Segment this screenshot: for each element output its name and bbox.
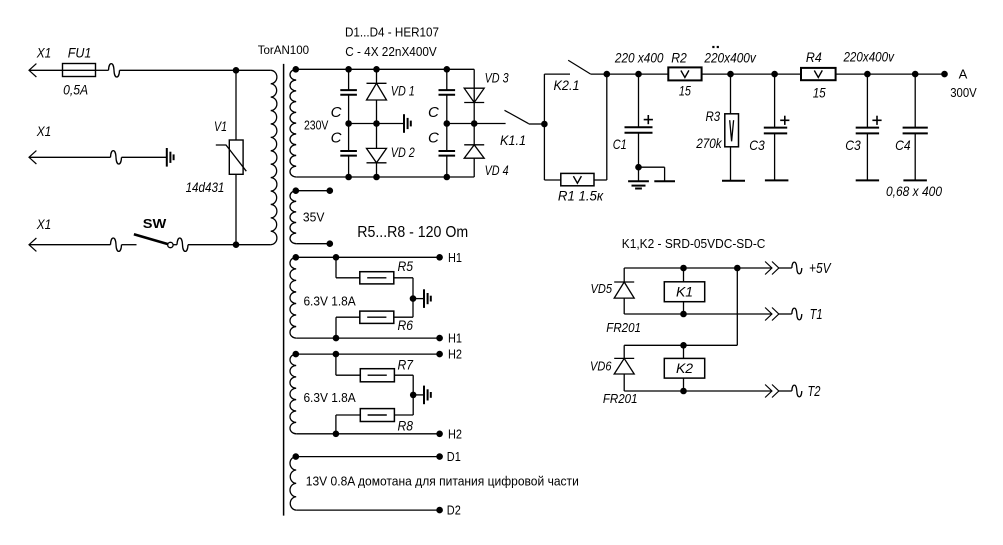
svg-text:220 x400: 220 x400 — [614, 49, 664, 65]
svg-text:H2: H2 — [448, 426, 462, 441]
svg-text:R5...R8 - 120 Om: R5...R8 - 120 Om — [357, 224, 468, 241]
svg-text:K2.1: K2.1 — [554, 77, 580, 93]
svg-text:K1,K2 - SRD-05VDC-SD-C: K1,K2 - SRD-05VDC-SD-C — [622, 236, 766, 251]
svg-text:6.3V 1.8A: 6.3V 1.8A — [303, 391, 356, 405]
svg-text:R8: R8 — [397, 418, 413, 434]
svg-text:K1: K1 — [676, 284, 693, 300]
svg-text:D1...D4 - HER107: D1...D4 - HER107 — [345, 25, 439, 39]
svg-text:0,5A: 0,5A — [63, 81, 88, 97]
svg-text:T1: T1 — [810, 306, 823, 323]
svg-text:C3: C3 — [845, 137, 861, 153]
svg-text:270k: 270k — [695, 135, 722, 151]
svg-text:C: C — [331, 104, 342, 121]
svg-text:14d431: 14d431 — [186, 179, 225, 195]
svg-text:X1: X1 — [36, 44, 51, 60]
svg-text:T2: T2 — [808, 383, 821, 400]
svg-text:VD 3: VD 3 — [485, 70, 509, 86]
svg-text:C: C — [331, 130, 342, 147]
svg-text:FU1: FU1 — [68, 45, 92, 61]
svg-text:H1: H1 — [448, 250, 462, 265]
svg-text:6.3V 1.8A: 6.3V 1.8A — [303, 294, 356, 308]
svg-text:13V 0.8A домотана для питания: 13V 0.8A домотана для питания цифровой ч… — [306, 475, 579, 489]
svg-text:C: C — [428, 104, 439, 121]
svg-text:R6: R6 — [398, 317, 414, 333]
svg-text:220x400v: 220x400v — [843, 48, 895, 64]
svg-text:C4: C4 — [895, 137, 911, 153]
svg-text:TorAN100: TorAN100 — [258, 43, 310, 57]
svg-text:C: C — [428, 130, 439, 147]
svg-text:230V: 230V — [304, 118, 329, 132]
svg-text:K2: K2 — [676, 360, 693, 376]
svg-text:0,68 x 400: 0,68 x 400 — [886, 183, 942, 199]
svg-text:A: A — [959, 67, 968, 82]
svg-text:R7: R7 — [397, 357, 414, 373]
svg-text:220x400v: 220x400v — [704, 49, 757, 65]
svg-text:X1: X1 — [36, 123, 51, 139]
svg-text:VD6: VD6 — [590, 359, 612, 373]
svg-text:15: 15 — [813, 84, 826, 100]
svg-text:X1: X1 — [36, 216, 51, 232]
svg-text:H1: H1 — [448, 331, 462, 346]
svg-text:SW: SW — [143, 216, 167, 231]
svg-text:R1 1.5к: R1 1.5к — [558, 188, 605, 204]
svg-text:35V: 35V — [303, 210, 325, 224]
svg-text:FR201: FR201 — [606, 320, 641, 335]
svg-text:C1: C1 — [613, 136, 627, 152]
svg-text:VD 4: VD 4 — [485, 162, 509, 178]
svg-text:VD 2: VD 2 — [391, 144, 415, 160]
svg-text:K1.1: K1.1 — [500, 132, 526, 148]
svg-text:+5V: +5V — [809, 260, 832, 277]
svg-text:VD 1: VD 1 — [391, 83, 415, 99]
svg-text:15: 15 — [679, 83, 691, 99]
svg-text:H2: H2 — [448, 347, 462, 362]
svg-text:R4: R4 — [806, 49, 822, 65]
svg-text:VD5: VD5 — [591, 282, 613, 296]
svg-text:C - 4X 22nX400V: C - 4X 22nX400V — [345, 45, 437, 59]
svg-text:R5: R5 — [398, 258, 414, 274]
svg-text:V1: V1 — [214, 118, 227, 134]
svg-text:R2: R2 — [671, 49, 687, 65]
svg-text:R3: R3 — [705, 108, 720, 124]
svg-text:D1: D1 — [447, 449, 461, 464]
svg-text:D2: D2 — [447, 503, 461, 518]
svg-text:300V: 300V — [950, 86, 977, 100]
svg-text:FR201: FR201 — [603, 391, 638, 406]
svg-text:C3: C3 — [749, 137, 765, 153]
